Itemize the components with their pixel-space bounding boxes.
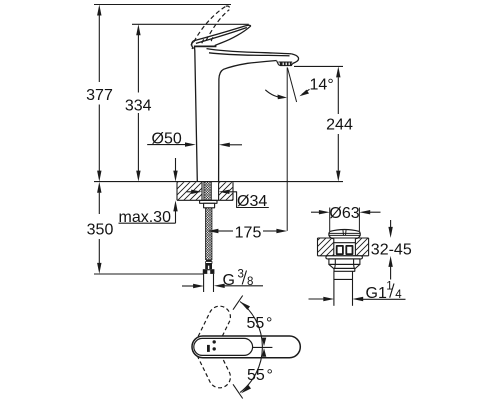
svg-text:377: 377 bbox=[86, 87, 113, 104]
mounting hole walls (D34) bbox=[201, 182, 203, 200]
faucet body and spout outline bbox=[195, 47, 299, 182]
svg-text:55: 55 bbox=[247, 315, 265, 332]
svg-text:350: 350 bbox=[87, 222, 114, 239]
extension line spout outlet (244 top reference) bbox=[294, 65, 343, 67]
55deg lower leader line bbox=[233, 384, 243, 398]
water stream angled line (14 deg) bbox=[287, 68, 296, 103]
dimension max.30 lower arrow and label bbox=[119, 200, 178, 226]
arc arrowhead below centerline (points up) bbox=[262, 348, 267, 357]
leader arrow for 14 deg bbox=[299, 89, 309, 96]
dimension G3/8 left arrow bbox=[182, 284, 204, 288]
55deg upper leader line bbox=[233, 296, 243, 310]
dimension D34 right arrow with bent leader and label bbox=[219, 190, 269, 210]
dimension G1 1/4 label with underline leader bbox=[352, 281, 405, 303]
threaded shank through counter (braided texture) bbox=[204, 182, 211, 201]
dimension D63 extension lines bbox=[329, 208, 331, 232]
svg-text:3: 3 bbox=[238, 268, 244, 280]
drain cap (push-open dome) bbox=[329, 230, 360, 239]
extension line top (377 reference, tip of raised lever) bbox=[94, 4, 231, 6]
55deg dimension arc bbox=[240, 302, 262, 393]
handle top view solid outline bbox=[192, 336, 300, 358]
handle swung up position (dashed pill) bbox=[191, 303, 235, 362]
dimension G3/8 label with underline leader bbox=[214, 268, 263, 289]
handle centerline bbox=[253, 346, 273, 348]
drain collar bbox=[334, 268, 355, 271]
dimension D34 left arrow bbox=[187, 190, 203, 194]
svg-text:32-45: 32-45 bbox=[371, 241, 412, 258]
drain hex nut bbox=[329, 259, 360, 269]
dimension 175 bbox=[208, 225, 288, 242]
svg-text:G1: G1 bbox=[366, 285, 387, 302]
dimension 350 line bbox=[97, 182, 101, 274]
dimension max.30 upper arrow bbox=[173, 158, 177, 182]
svg-text:8: 8 bbox=[247, 276, 253, 288]
drain washer below counter bbox=[326, 256, 363, 259]
drain threaded tailpipe G1 1/4 bbox=[334, 271, 353, 306]
swivel arc arrow bbox=[265, 90, 287, 100]
svg-text:334: 334 bbox=[125, 98, 152, 115]
faucet raised lever (dashed) bbox=[191, 6, 229, 49]
svg-text:55: 55 bbox=[247, 367, 265, 384]
drain body in counter with overflow windows bbox=[334, 239, 356, 256]
extension line mounting surface (long) bbox=[94, 181, 343, 183]
mounting nut bbox=[204, 203, 215, 208]
svg-text:14: 14 bbox=[310, 76, 328, 93]
mounting washer below counter bbox=[200, 200, 217, 203]
flexible hose (braided) bbox=[206, 208, 212, 260]
dimension 244 line bbox=[336, 66, 340, 181]
arc arrowhead above centerline (points down) bbox=[262, 338, 267, 347]
hose end nut G3/8 bbox=[203, 263, 215, 274]
dimension 377 line bbox=[97, 5, 101, 182]
handle swung down position (dashed pill) bbox=[191, 333, 235, 392]
hose crimp sleeve bbox=[206, 260, 212, 264]
svg-text:244: 244 bbox=[326, 117, 353, 134]
extension line 334 reference (top of solid lever) bbox=[132, 23, 249, 25]
55deg upper arc arrowhead bbox=[240, 302, 250, 310]
dimension G1 1/4 left arrow bbox=[309, 297, 335, 301]
dimension D50 label with leader bbox=[147, 130, 196, 147]
svg-text:°: ° bbox=[266, 315, 272, 332]
faucet solid lever (side view) bbox=[192, 25, 251, 48]
svg-text:4: 4 bbox=[395, 289, 402, 301]
G3/8 connection tube bbox=[204, 274, 214, 292]
dimension 334 line bbox=[136, 24, 140, 181]
55deg lower arc arrowhead bbox=[241, 385, 251, 393]
dimension D50 right arrow bbox=[219, 143, 242, 147]
svg-text:°: ° bbox=[327, 76, 333, 93]
countertop left section (hatched) bbox=[177, 182, 233, 200]
water stream vertical reference line bbox=[286, 68, 288, 231]
handle indicator dots bbox=[213, 340, 216, 343]
svg-text:Ø63: Ø63 bbox=[329, 205, 359, 222]
svg-text:Ø34: Ø34 bbox=[237, 193, 267, 210]
handle paddle inner outline bbox=[194, 338, 253, 355]
svg-text:°: ° bbox=[267, 367, 273, 384]
dimension D63 arrows bbox=[311, 210, 381, 214]
dimension 32-45 arrows bbox=[388, 220, 392, 280]
spout aerator bbox=[277, 61, 293, 66]
extension line hose end (350 bottom reference) bbox=[94, 273, 204, 275]
svg-text:175: 175 bbox=[235, 225, 262, 242]
handle indicator bar bbox=[207, 345, 210, 352]
countertop right section (hatched) bbox=[318, 238, 369, 256]
svg-text:G: G bbox=[223, 272, 235, 289]
